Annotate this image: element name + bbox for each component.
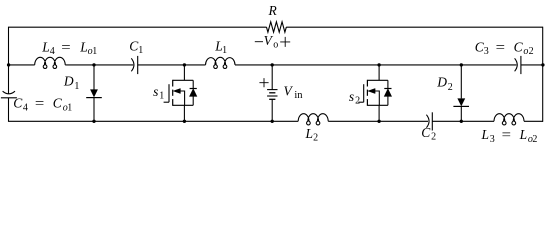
- node dot: middle rail left corner: [7, 63, 10, 66]
- wire middle rail: C3 to right corner: [521, 64, 543, 66]
- transistor s1: drain lead: [183, 65, 185, 80]
- capacitor C4 curved plate: [3, 91, 15, 94]
- capacitor C1 straight plate: [137, 56, 139, 74]
- transistor s2: drain lead: [378, 65, 380, 80]
- wire bottom rail: L2 to C2: [328, 120, 428, 122]
- wire middle rail: L1 to C3: [235, 64, 516, 66]
- wire bottom rail: C2 to L3: [432, 120, 494, 122]
- wire right vertical: [542, 27, 544, 122]
- wire bottom rail: left to L2: [9, 120, 299, 122]
- battery Vin plate 2 (short): [269, 92, 275, 94]
- svg-text:D2: D2: [436, 74, 453, 92]
- transistor s1: channel bottom segment: [172, 99, 174, 106]
- svg-text:L3=Lo2: L3=Lo2: [481, 127, 538, 145]
- transistor s1: bulk lead with arrow: [180, 91, 185, 105]
- wire left vertical bottom (C4 to bottom rail): [8, 98, 10, 122]
- node dot: D2 anode on middle rail: [460, 63, 463, 66]
- svg-text:D1: D1: [63, 73, 80, 91]
- wire left vertical top (top rail to node A): [8, 27, 10, 65]
- svg-text:C2: C2: [421, 125, 436, 143]
- diode D1 triangle: [90, 89, 98, 97]
- battery plus sign: [259, 78, 268, 87]
- diode D1 cathode bar: [86, 97, 102, 99]
- wire middle rail: L4 to C1: [65, 64, 133, 66]
- wire Vin top lead: [271, 65, 273, 90]
- transistor s2: gate lead: [358, 101, 363, 103]
- transistor s1: source lead: [183, 105, 185, 121]
- transistor s2: source bar: [367, 104, 388, 106]
- transistor s2: body diode wire bottom: [387, 96, 389, 105]
- transistor s2: source lead: [378, 105, 380, 121]
- battery Vin plate 1 (long, +): [267, 89, 277, 91]
- svg-text:R: R: [268, 3, 278, 18]
- transistor s2: channel middle segment: [366, 90, 368, 96]
- transistor s2: drain bar: [367, 79, 388, 81]
- svg-text:C4=Co1: C4=Co1: [13, 96, 72, 114]
- svg-text:Vin: Vin: [284, 83, 304, 101]
- battery Vin plate 3 (long): [267, 95, 277, 97]
- wire D2 cathode (bar to bottom rail): [460, 107, 462, 122]
- svg-text:C1: C1: [129, 39, 143, 57]
- node dot: middle rail right corner: [541, 63, 544, 66]
- node dot: s1 source on bottom rail: [183, 120, 186, 123]
- svg-text:s2: s2: [349, 89, 360, 107]
- inductor L3: [494, 114, 524, 125]
- inductor L1: [206, 57, 236, 68]
- svg-text:s1: s1: [153, 84, 164, 102]
- transistor s2: gate bar: [363, 84, 365, 102]
- label -Vo+ : plus sign: [280, 37, 290, 47]
- node dot: D1 cathode on bottom rail: [92, 120, 95, 123]
- wire Vin bottom lead: [271, 99, 273, 121]
- capacitor C1 curved plate: [131, 58, 134, 71]
- transistor s2: body diode cathode bar: [384, 88, 391, 90]
- node dot: Vin- on bottom rail: [271, 120, 274, 123]
- transistor s2: bulk lead with arrow: [374, 91, 379, 105]
- inductor L2: [298, 114, 328, 125]
- node dot: s2 source on bottom rail: [377, 120, 380, 123]
- transistor s1: bulk arrow head: [173, 89, 180, 94]
- label -Vo+ : minus sign: [255, 41, 263, 43]
- wire left vertical (node A to capacitor C4): [8, 65, 10, 94]
- wire top rail left segment: [9, 26, 267, 28]
- transistor s2: channel top segment: [366, 80, 368, 87]
- node dot: D1 anode on middle rail: [92, 63, 95, 66]
- wire bottom rail: L3 to right corner: [524, 120, 543, 122]
- transistor s1: channel top segment: [172, 80, 174, 87]
- capacitor C2 straight plate: [431, 112, 433, 130]
- svg-text:L4=Lo1: L4=Lo1: [41, 39, 97, 57]
- diode D2 cathode bar: [453, 105, 469, 107]
- transistor s2: body diode wire top: [387, 80, 389, 88]
- transistor s2: body diode triangle: [384, 89, 391, 96]
- transistor s1: channel middle segment: [172, 90, 174, 96]
- node dot: D2 cathode on bottom rail: [460, 120, 463, 123]
- svg-text:Vo: Vo: [264, 33, 279, 50]
- transistor s2: bulk arrow head: [368, 89, 375, 94]
- wire D1 cathode (bar to bottom rail): [93, 98, 95, 122]
- transistor s1: body diode triangle: [190, 89, 197, 96]
- transistor s1: gate bar: [168, 84, 170, 102]
- node dot: s1 drain on middle rail: [183, 63, 186, 66]
- node dot: s2 drain on middle rail: [377, 63, 380, 66]
- capacitor C2 curved plate: [426, 115, 429, 128]
- inductor L4: [35, 57, 65, 68]
- transistor s2: channel bottom segment: [366, 99, 368, 106]
- transistor s1: source bar: [173, 104, 194, 106]
- resistor R: [267, 22, 287, 32]
- wire D1 anode (node to diode): [93, 65, 95, 90]
- svg-text:L1: L1: [214, 39, 227, 57]
- svg-text:C3=Co2: C3=Co2: [475, 39, 534, 57]
- battery Vin plate 4 (short): [269, 98, 275, 100]
- wire middle rail: C1 to L1: [138, 64, 206, 66]
- wire D2 anode (node to diode): [460, 65, 462, 99]
- node dot: Vin+ on middle rail: [271, 63, 274, 66]
- diode D2 triangle: [457, 98, 465, 106]
- svg-text:L2: L2: [305, 126, 319, 144]
- capacitor C4 straight plate: [1, 97, 17, 99]
- wire top rail right segment: [286, 26, 543, 28]
- transistor s1: drain bar: [173, 79, 194, 81]
- transistor s1: body diode cathode bar: [190, 88, 197, 90]
- transistor s1: body diode wire top: [192, 80, 194, 88]
- wire middle rail: left node to L4: [9, 64, 35, 66]
- transistor s1: gate lead: [164, 101, 169, 103]
- capacitor C3 straight plate: [520, 56, 522, 74]
- transistor s1: body diode wire bottom: [192, 96, 194, 105]
- capacitor C3 curved plate: [515, 58, 518, 71]
